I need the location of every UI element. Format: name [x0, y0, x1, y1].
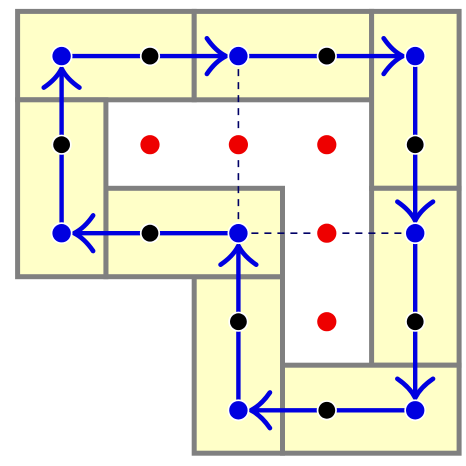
- domino D2 top-middle horizontal: [194, 11, 371, 99]
- domino D4 right-middle vertical: [372, 188, 460, 365]
- domino D7 middle-left horizontal: [106, 188, 283, 276]
- arrow A8 head: [44, 69, 80, 88]
- red free-cell dot (2,1): [227, 133, 250, 156]
- blue node (4,0): [404, 45, 426, 67]
- red free-cell dot (3,2): [316, 222, 339, 245]
- arrow A3 head: [397, 202, 433, 221]
- blue node (0,2): [51, 222, 73, 244]
- domino D6 bottom-middle vertical: [194, 277, 282, 454]
- arrow A8 shaft: [59, 69, 63, 234]
- domino D3 top-right vertical: [372, 11, 460, 188]
- blue node (2,4): [228, 399, 250, 421]
- arrow A6 shaft: [236, 246, 240, 411]
- blue node (2,0): [228, 45, 250, 67]
- arrow A7 shaft: [74, 231, 238, 235]
- domino D8 left-middle vertical: [18, 100, 106, 277]
- black midpoint dot (0,1): [52, 135, 72, 155]
- red free-cell dot (1,1): [139, 133, 162, 156]
- black midpoint dot (4,3): [405, 312, 425, 332]
- black midpoint dot (3,4): [317, 400, 337, 420]
- black midpoint dot (1,0): [140, 46, 160, 66]
- blue node (0,0): [51, 45, 73, 67]
- domino D1 top-left horizontal: [18, 11, 195, 99]
- arrow A2 head: [384, 38, 403, 74]
- blue node (4,2): [404, 222, 426, 244]
- dashed chord horizontal: [238, 232, 415, 234]
- arrow A1 shaft: [62, 54, 226, 58]
- red free-cell dot (3,1): [316, 133, 339, 156]
- blue node (2,2): [228, 222, 250, 244]
- domino D5 bottom-right horizontal: [283, 365, 460, 453]
- arrow A5 shaft: [251, 408, 415, 412]
- arrow A1 head: [207, 38, 226, 74]
- arrow A6 head: [221, 246, 257, 265]
- arrow A4 head: [397, 379, 433, 398]
- black midpoint dot (2,3): [228, 312, 248, 332]
- black midpoint dot (4,1): [405, 135, 425, 155]
- black midpoint dot (1,2): [140, 223, 160, 243]
- black midpoint dot (3,0): [317, 46, 337, 66]
- arrow A5 head: [251, 393, 270, 429]
- arrow A3 shaft: [413, 56, 417, 221]
- arrow A4 shaft: [413, 233, 417, 398]
- red free-cell dot (3,3): [316, 310, 339, 333]
- arrow A2 shaft: [238, 54, 402, 58]
- dashed chord vertical: [237, 56, 239, 233]
- arrow A7 head: [74, 215, 93, 251]
- blue node (4,4): [404, 399, 426, 421]
